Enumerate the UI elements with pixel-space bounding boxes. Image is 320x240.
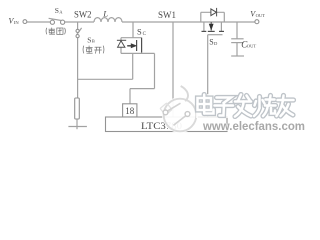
svg-text:L: L	[102, 8, 108, 18]
svg-text:www.elecfans.com: www.elecfans.com	[202, 121, 305, 133]
svg-text:OUT: OUT	[256, 13, 266, 18]
svg-text:IN: IN	[14, 20, 20, 25]
svg-text:SW1: SW1	[158, 10, 176, 20]
svg-text:B: B	[92, 39, 95, 44]
svg-text:18: 18	[125, 106, 135, 116]
svg-text:SW2: SW2	[74, 10, 92, 20]
svg-text:S: S	[137, 27, 142, 37]
svg-text:OUT: OUT	[247, 43, 257, 48]
